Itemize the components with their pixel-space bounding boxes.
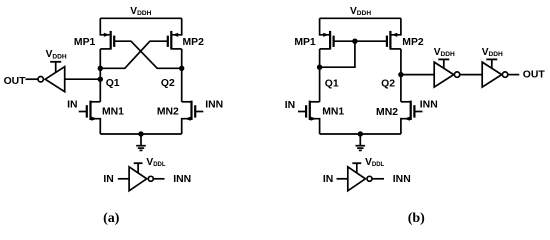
svg-text:MN1: MN1 bbox=[322, 107, 344, 118]
svg-text:MN2: MN2 bbox=[376, 107, 398, 118]
wire inverter to INN (a) bbox=[153, 178, 164, 180]
wire Q2 vertical bbox=[181, 49, 183, 102]
ground symbol (a) bbox=[136, 134, 146, 150]
wire Q1 vertical (b) bbox=[319, 49, 321, 102]
svg-text:IN: IN bbox=[67, 100, 77, 111]
wire to OUT (b) bbox=[508, 74, 520, 76]
svg-text:INN: INN bbox=[173, 174, 191, 185]
node Q2 bbox=[179, 66, 184, 71]
inverter U1 output buffer (a) bbox=[38, 67, 65, 92]
node gate tie bbox=[352, 39, 357, 44]
svg-text:IN: IN bbox=[323, 174, 333, 185]
svg-text:MP2: MP2 bbox=[183, 37, 205, 48]
svg-text:OUT: OUT bbox=[523, 70, 546, 81]
svg-text:MP1: MP1 bbox=[294, 37, 316, 48]
svg-text:Q1: Q1 bbox=[325, 78, 339, 89]
svg-text:Q2: Q2 bbox=[381, 79, 395, 90]
wire inverter to INN (b) bbox=[372, 178, 384, 180]
svg-text:(a): (a) bbox=[103, 211, 120, 226]
pmos transistor MP1 bbox=[320, 18, 334, 49]
VDDH rail (b) bbox=[320, 17, 401, 19]
source rail (b) bbox=[320, 133, 401, 135]
svg-text:Q2: Q2 bbox=[161, 78, 175, 89]
wire Q2 to first inverter bbox=[401, 74, 434, 76]
source rail (a) bbox=[100, 133, 181, 135]
supply bar VDDH of U1 output buffer (a) bbox=[50, 62, 61, 73]
inverter U5 input inverter (b) bbox=[348, 167, 372, 191]
inverter U4 output buffer 2 (b) bbox=[482, 62, 508, 87]
supply bar VDDH of U4 output buffer 2 (b) bbox=[486, 59, 497, 68]
svg-text:IN: IN bbox=[103, 174, 113, 185]
node Q1 bbox=[98, 66, 103, 71]
node Q1 (b) bbox=[317, 65, 322, 70]
wire Q2 vertical (b) bbox=[400, 49, 402, 102]
wire IN to input inverter (b) bbox=[337, 178, 348, 180]
wire gate tie down to Q1 bbox=[320, 41, 355, 67]
ground node (a) bbox=[138, 131, 143, 136]
wire IN to input inverter bbox=[118, 178, 129, 180]
wire Q1 vertical bbox=[99, 49, 101, 102]
svg-text:MP1: MP1 bbox=[74, 37, 96, 48]
svg-text:INN: INN bbox=[420, 100, 438, 111]
svg-text:MN2: MN2 bbox=[157, 107, 179, 118]
svg-text:OUT: OUT bbox=[4, 76, 27, 87]
node Q2 (b) bbox=[398, 72, 403, 77]
supply bar VDDL of U2 input inverter (a) bbox=[134, 163, 143, 173]
ground node (b) bbox=[358, 131, 363, 136]
pmos transistor MP2 bbox=[387, 18, 401, 49]
pmos transistor MP2 bbox=[168, 18, 182, 49]
svg-text:IN: IN bbox=[285, 100, 295, 111]
inverter U2 input inverter (a) bbox=[129, 167, 153, 191]
wire inverter1 to inverter2 bbox=[460, 74, 482, 76]
svg-text:INN: INN bbox=[393, 174, 411, 185]
svg-text:Q1: Q1 bbox=[106, 78, 120, 89]
nmos transistor MN2 bbox=[401, 101, 423, 134]
wire Q1 to output inverter bbox=[65, 78, 101, 80]
wire MP1 gate to Q2 (cross) bbox=[114, 41, 182, 68]
node Q1 tap bbox=[98, 77, 103, 82]
pmos transistor MP1 bbox=[100, 18, 114, 49]
inverter U3 output buffer 1 (b) bbox=[434, 62, 460, 87]
nmos transistor MN1 bbox=[298, 101, 320, 134]
wire MP2 gate to Q1 (cross) bbox=[100, 41, 168, 68]
nmos transistor MN1 bbox=[79, 101, 101, 134]
svg-text:(b): (b) bbox=[408, 211, 425, 226]
svg-text:INN: INN bbox=[205, 100, 223, 111]
nmos transistor MN2 bbox=[182, 101, 204, 134]
supply bar VDDL of U5 input inverter (b) bbox=[352, 163, 361, 173]
supply bar VDDH of U3 output buffer 1 (b) bbox=[438, 59, 449, 68]
ground symbol (b) bbox=[356, 134, 366, 150]
VDDH rail (a) bbox=[100, 17, 181, 19]
wire gate tie MP1-MP2 bbox=[334, 40, 387, 42]
svg-text:MN1: MN1 bbox=[102, 107, 124, 118]
svg-text:MP2: MP2 bbox=[402, 37, 424, 48]
wire inverter to OUT bbox=[26, 78, 39, 80]
